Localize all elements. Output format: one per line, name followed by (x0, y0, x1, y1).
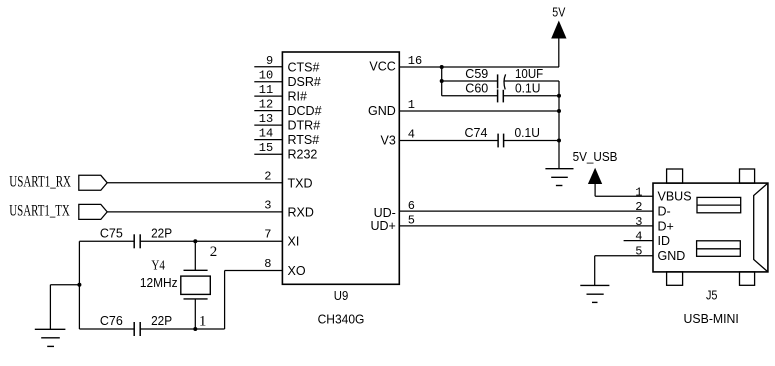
svg-text:22P: 22P (151, 314, 172, 328)
connector contact lower (697, 241, 741, 256)
node junction C59 left (440, 79, 444, 83)
capacitor C60 0.1U (465, 81, 540, 102)
wire XI row right segment to pin 7 (140, 240, 282, 242)
J5 pin 5 GND (635, 244, 685, 263)
wire C59 C60 left vertical (441, 67, 443, 96)
connector tab bottom-left (667, 272, 683, 285)
svg-text:D-: D- (658, 205, 671, 219)
capacitor C75 22P (100, 226, 172, 248)
pin 9 CTS# (254, 54, 319, 75)
svg-text:2: 2 (635, 200, 642, 214)
pin 10 DSR# (254, 69, 321, 90)
wire GND of USB (595, 256, 653, 285)
J5 pin 2 D- (635, 200, 670, 218)
svg-text:USART1_TX: USART1_TX (9, 203, 70, 220)
port USART1_TX (9, 203, 107, 220)
svg-text:UD-: UD- (374, 206, 396, 220)
connector tab bottom-right (740, 272, 755, 285)
svg-text:1: 1 (199, 314, 207, 330)
svg-text:V3: V3 (381, 134, 396, 148)
J5 designator label (706, 288, 718, 302)
wire XO row left segment (79, 328, 134, 330)
IC U9 CH340G body (282, 52, 399, 284)
wire UD+ to D+ (399, 225, 653, 227)
wire UD- to D- (399, 210, 653, 212)
svg-text:RXD: RXD (288, 205, 314, 219)
capacitor C74 0.1U (465, 126, 540, 147)
pin 11 RI# (254, 83, 307, 104)
node junction crystal top (193, 239, 197, 243)
svg-text:10UF: 10UF (515, 67, 544, 81)
node junction C74 right (557, 139, 561, 143)
wire VBUS net (595, 195, 653, 197)
wire USART1_TX to RXD pin 3 (107, 211, 282, 213)
wire USART1_RX to TXD pin 2 (107, 182, 282, 184)
wire C60 row left (442, 95, 498, 97)
svg-text:CTS#: CTS# (288, 60, 320, 74)
svg-text:DTR#: DTR# (288, 119, 321, 133)
svg-text:14: 14 (259, 127, 273, 141)
J5 pin 1 VBUS (635, 185, 691, 203)
svg-text:XI: XI (288, 235, 300, 249)
svg-text:GND: GND (368, 104, 396, 118)
svg-text:3: 3 (264, 198, 271, 212)
svg-text:C74: C74 (465, 126, 488, 140)
svg-text:U9: U9 (334, 289, 349, 303)
svg-text:16: 16 (408, 54, 422, 68)
node junction C60 right (557, 94, 561, 98)
svg-text:5V_USB: 5V_USB (573, 150, 618, 164)
wire to left ground (50, 285, 79, 330)
svg-text:Y4: Y4 (151, 259, 165, 274)
svg-text:C76: C76 (100, 314, 123, 328)
node junction GND pin right (557, 109, 561, 113)
svg-text:12MHz: 12MHz (140, 276, 178, 290)
svg-text:1: 1 (635, 185, 642, 199)
J5 pin 3 D+ (635, 215, 674, 233)
svg-text:C60: C60 (465, 81, 488, 95)
CH340G value label (318, 312, 365, 326)
svg-text:USB-MINI: USB-MINI (684, 312, 739, 326)
wire ID stub (624, 240, 653, 242)
svg-text:RTS#: RTS# (288, 133, 320, 147)
svg-text:11: 11 (259, 83, 273, 97)
svg-text:USART1_RX: USART1_RX (9, 174, 71, 191)
wire crystal left vertical (78, 241, 80, 329)
svg-text:VBUS: VBUS (658, 190, 692, 204)
svg-text:12: 12 (259, 98, 273, 112)
svg-text:1: 1 (408, 98, 415, 112)
wire C60 row right (503, 95, 559, 97)
node junction VCC branch (440, 65, 444, 69)
power 5V symbol (551, 6, 566, 67)
pin 15 R232 (254, 141, 317, 162)
wire VCC net pin 16 (399, 66, 559, 68)
svg-text:4: 4 (635, 230, 642, 244)
wire XI row left segment (79, 240, 134, 242)
power 5V_USB symbol (573, 150, 618, 196)
svg-text:13: 13 (259, 112, 273, 126)
ground left (35, 329, 66, 346)
svg-text:GND: GND (658, 249, 686, 263)
connector J5 USB-MINI body (653, 183, 768, 272)
svg-text:10: 10 (259, 69, 273, 83)
node junction left vertical (77, 283, 81, 287)
crystal Y4 12MHz (140, 259, 210, 299)
capacitor C59 10UF polarized (465, 67, 543, 90)
wire V3 row left (399, 140, 498, 142)
svg-text:TXD: TXD (288, 176, 313, 190)
ground middle (545, 169, 573, 186)
svg-text:UD+: UD+ (370, 219, 395, 233)
connector tab top-right (740, 169, 755, 183)
pin 8 XO (264, 257, 306, 278)
svg-text:C75: C75 (100, 226, 123, 240)
pin 3 RXD (264, 198, 314, 219)
svg-text:22P: 22P (151, 226, 172, 240)
node junction crystal bottom (193, 327, 197, 331)
ground USB (580, 285, 609, 302)
svg-text:7: 7 (264, 228, 271, 242)
svg-text:8: 8 (264, 257, 271, 271)
pin 5 UD+ (370, 214, 415, 234)
connector tab top-left (667, 169, 683, 183)
svg-text:D+: D+ (658, 219, 674, 233)
capacitor C76 22P (100, 314, 172, 336)
pin 6 UD- (374, 199, 415, 220)
svg-text:DCD#: DCD# (288, 104, 322, 118)
pin 1 GND (368, 98, 415, 118)
wire ground rail right vertical (558, 81, 560, 168)
svg-text:4: 4 (408, 127, 415, 141)
svg-text:0.1U: 0.1U (515, 126, 540, 140)
svg-text:9: 9 (266, 54, 273, 68)
pin 12 DCD# (254, 98, 321, 119)
svg-text:3: 3 (635, 215, 642, 229)
pin 7 XI (264, 228, 299, 249)
wire C59 row left (442, 80, 498, 82)
wire crystal pin 2 (194, 241, 196, 270)
svg-text:VCC: VCC (369, 60, 395, 74)
svg-text:2: 2 (210, 244, 218, 260)
pin 14 RTS# (254, 127, 319, 148)
wire V3 row right (504, 140, 559, 142)
wire C59 row right (504, 80, 559, 82)
port USART1_RX (9, 174, 107, 191)
wire GND pin 1 (399, 110, 559, 112)
pin 16 VCC (369, 54, 422, 74)
pin number 1 of crystal (199, 314, 207, 330)
pin 4 V3 (381, 127, 416, 147)
svg-text:DSR#: DSR# (288, 75, 321, 89)
svg-text:5V: 5V (552, 6, 566, 20)
pin number 2 of crystal (210, 244, 218, 260)
svg-text:2: 2 (264, 169, 271, 183)
svg-text:5: 5 (635, 244, 642, 258)
J5 pin 4 ID (635, 230, 670, 248)
USB-MINI value label (684, 312, 739, 326)
svg-text:RI#: RI# (288, 90, 308, 104)
pin 2 TXD (264, 169, 312, 190)
svg-text:ID: ID (658, 234, 671, 248)
wire crystal pin 1 (194, 299, 196, 329)
U9 designator label (334, 289, 349, 303)
wire XO row to pin 8 (140, 271, 282, 330)
svg-text:XO: XO (288, 264, 306, 278)
svg-text:C59: C59 (465, 67, 488, 81)
connector contact upper (697, 197, 741, 212)
svg-text:0.1U: 0.1U (515, 81, 540, 95)
svg-text:CH340G: CH340G (318, 312, 365, 326)
svg-text:R232: R232 (288, 148, 318, 162)
svg-text:J5: J5 (706, 288, 718, 302)
svg-text:15: 15 (259, 141, 273, 155)
pin 13 DTR# (254, 112, 320, 133)
